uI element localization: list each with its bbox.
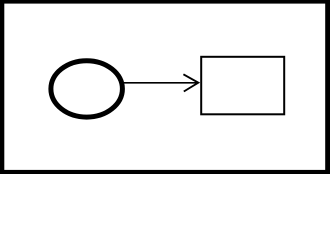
node E1: ellipse	[51, 61, 123, 117]
frame right	[325, 0, 330, 174]
node B1: box	[201, 57, 284, 115]
frame top	[0, 0, 330, 4]
wire: arrow shaft from ellipse to box	[121, 82, 198, 84]
arrowhead	[183, 74, 198, 91]
frame bottom	[0, 170, 330, 174]
frame left	[0, 0, 4, 174]
